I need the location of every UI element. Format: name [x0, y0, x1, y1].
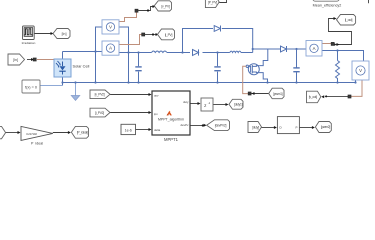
svg-text:A: A [109, 46, 112, 51]
svg-text:[P_PV]: [P_PV] [208, 0, 217, 4]
svg-text:[pwm1]: [pwm1] [273, 92, 282, 96]
svg-text:P: P [295, 126, 297, 130]
svg-text:[i_out]: [i_out] [345, 18, 353, 22]
svg-text:[duty]: [duty] [252, 125, 259, 129]
svg-text:P_ideal: P_ideal [31, 142, 43, 145]
svg-text:[devPV2]: [devPV2] [215, 123, 227, 127]
svg-text:[i_PV]: [i_PV] [165, 33, 173, 37]
svg-text:MPPT1: MPPT1 [164, 137, 179, 142]
svg-text:ipv: ipv [154, 112, 158, 116]
svg-text:-1: -1 [208, 101, 211, 105]
svg-text:duty: duty [183, 100, 189, 104]
svg-text:f(x) = 0: f(x) = 0 [25, 85, 37, 89]
svg-text:A: A [313, 46, 316, 51]
svg-text:[pwm2]: [pwm2] [321, 125, 330, 129]
svg-text:[In]: [In] [62, 32, 67, 36]
svg-text:Solar Cell: Solar Cell [73, 63, 90, 68]
svg-text:delta: delta [154, 128, 161, 132]
svg-text:devPv: devPv [180, 123, 189, 127]
svg-text:0.217102: 0.217102 [26, 132, 37, 136]
svg-text:MPPT_algorithm: MPPT_algorithm [158, 117, 184, 121]
svg-text:vpv: vpv [154, 94, 159, 98]
svg-text:Irradiation: Irradiation [22, 41, 36, 45]
svg-text:[In]: [In] [13, 58, 18, 62]
svg-text:[v_PV]: [v_PV] [161, 5, 170, 9]
svg-text:Mean_efficiency2: Mean_efficiency2 [313, 3, 342, 7]
svg-text:V: V [359, 68, 362, 73]
svg-text:[i_PV2]: [i_PV2] [95, 111, 104, 115]
svg-text:1e-6: 1e-6 [125, 128, 132, 132]
svg-text:[v_out]: [v_out] [309, 95, 317, 99]
svg-text:[v_PV2]: [v_PV2] [95, 93, 105, 97]
svg-text:[P_ideal]: [P_ideal] [77, 131, 88, 135]
svg-text:V: V [109, 24, 112, 29]
svg-text:[duty1]: [duty1] [234, 103, 242, 107]
